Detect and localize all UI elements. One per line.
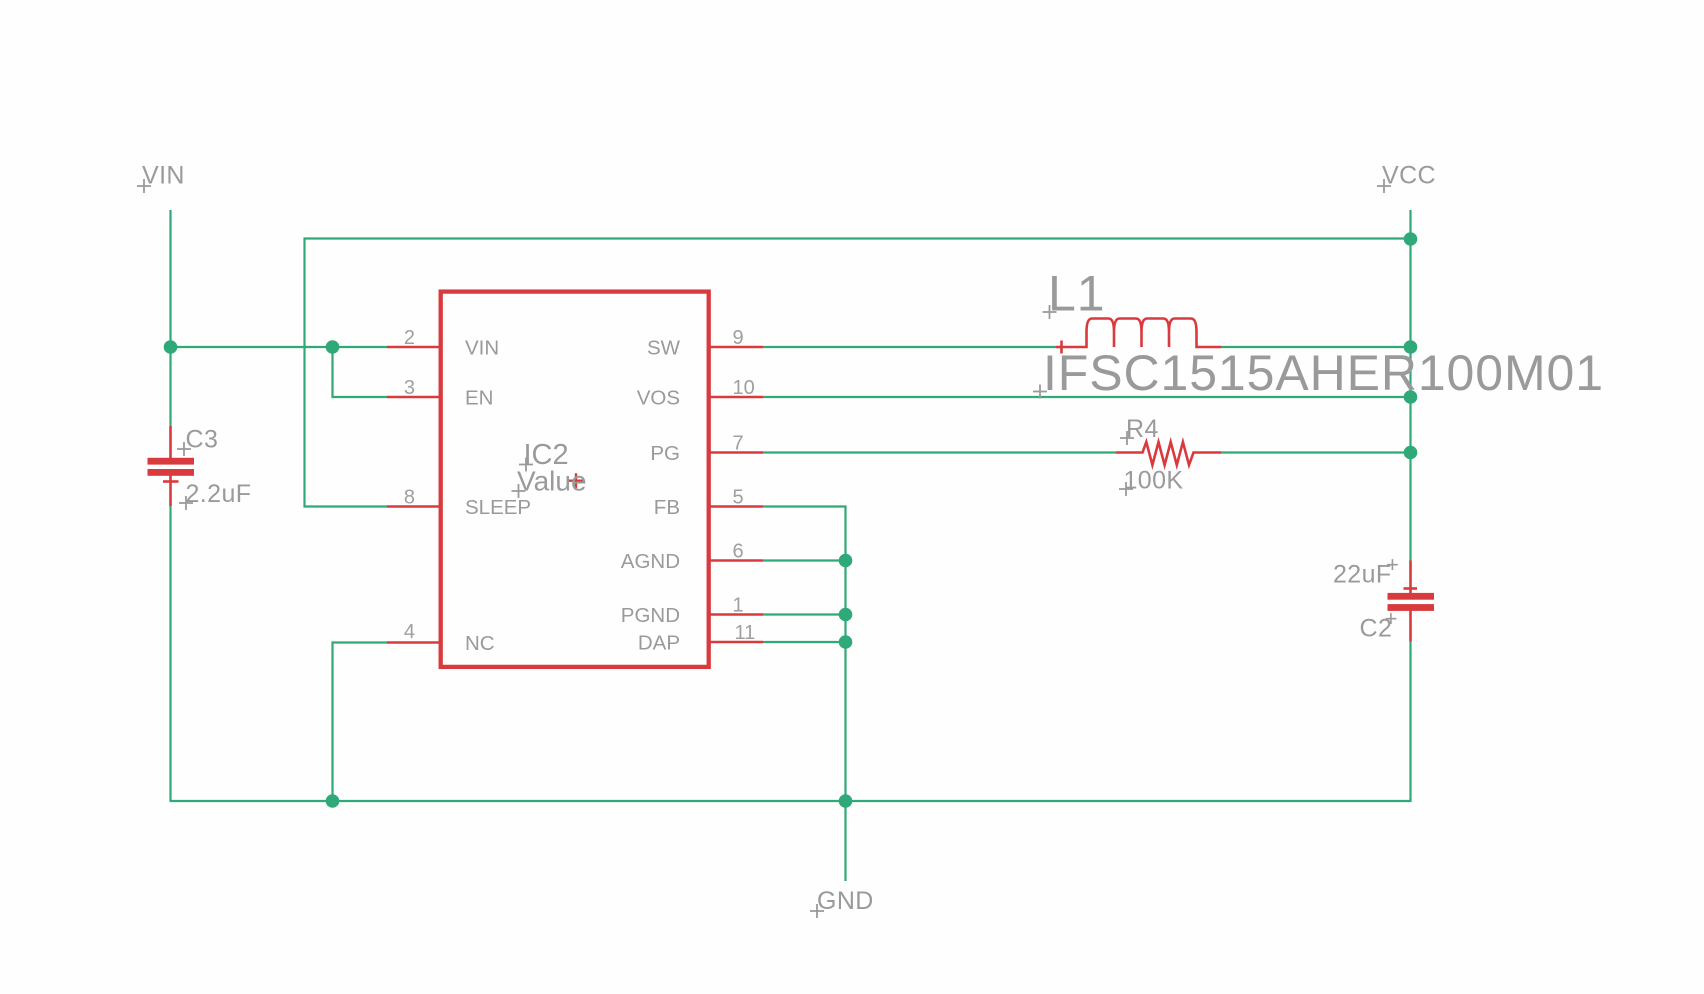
svg-text:3: 3 [404, 377, 415, 399]
svg-text:PG: PG [650, 442, 680, 465]
svg-text:22uF: 22uF [1333, 561, 1392, 589]
svg-text:VIN: VIN [465, 337, 499, 360]
svg-text:IFSC1515AHER100M01: IFSC1515AHER100M01 [1043, 345, 1604, 401]
svg-text:4: 4 [404, 621, 415, 643]
svg-text:1: 1 [733, 595, 744, 617]
svg-text:AGND: AGND [621, 550, 680, 573]
svg-text:11: 11 [735, 622, 756, 644]
svg-text:2.2uF: 2.2uF [186, 480, 252, 508]
svg-text:6: 6 [733, 541, 744, 563]
svg-text:L1: L1 [1048, 266, 1105, 322]
svg-text:SW: SW [647, 337, 681, 360]
svg-text:100K: 100K [1124, 467, 1184, 495]
svg-text:+: + [1386, 552, 1399, 577]
svg-text:DAP: DAP [638, 632, 680, 655]
svg-text:GND: GND [817, 887, 874, 915]
svg-text:8: 8 [404, 487, 415, 509]
svg-text:Value: Value [517, 466, 587, 497]
svg-text:+: + [1385, 606, 1398, 631]
svg-text:9: 9 [733, 327, 744, 349]
svg-text:2: 2 [404, 327, 415, 349]
svg-text:VOS: VOS [637, 387, 680, 410]
svg-text:FB: FB [654, 496, 680, 519]
svg-text:7: 7 [733, 433, 744, 455]
svg-text:5: 5 [733, 487, 744, 509]
svg-text:EN: EN [465, 387, 493, 410]
svg-text:NC: NC [465, 632, 495, 655]
svg-text:10: 10 [733, 377, 755, 399]
svg-text:SLEEP: SLEEP [465, 496, 531, 519]
svg-text:PGND: PGND [621, 604, 680, 627]
